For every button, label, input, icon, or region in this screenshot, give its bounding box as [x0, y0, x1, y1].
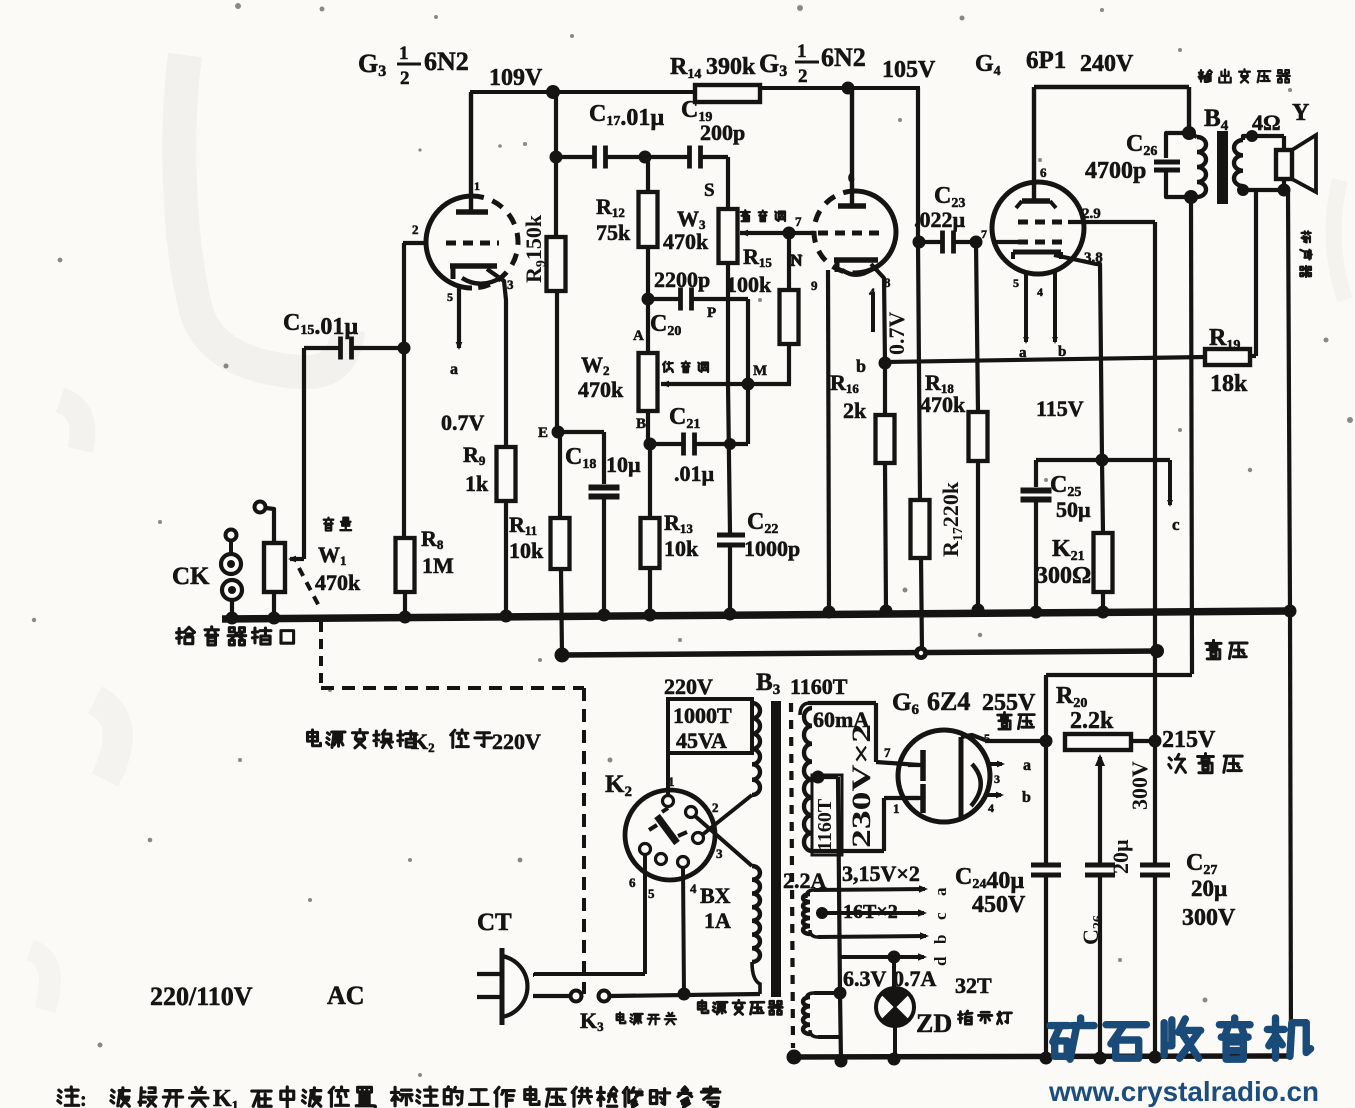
svg-text:32T: 32T — [955, 973, 992, 998]
svg-text:www.crystalradio.cn: www.crystalradio.cn — [1048, 1076, 1319, 1107]
capacitor C26 20u filter — [1078, 761, 1152, 1057]
svg-text:1: 1 — [399, 43, 409, 64]
label 0.7V rotated (G3b cathode) — [884, 312, 909, 356]
label G4 6P1 240V — [975, 47, 1134, 79]
capacitor C18 10u electrolytic — [558, 432, 641, 615]
svg-text:115V: 115V — [1036, 396, 1084, 421]
svg-text:2200p: 2200p — [654, 267, 710, 292]
wire cathode bias rail y=460 with c tap — [1036, 460, 1180, 534]
svg-text:16T×2: 16T×2 — [843, 901, 898, 923]
svg-text:109V: 109V — [489, 65, 543, 91]
svg-text:9: 9 — [811, 278, 818, 293]
svg-text:1160T: 1160T — [790, 674, 848, 699]
wire heater winding taps a c b with arrows — [814, 885, 929, 940]
resistor R13 10k — [641, 444, 700, 615]
svg-text:450V: 450V — [972, 892, 1026, 918]
svg-text:7: 7 — [795, 214, 802, 229]
capacitor C25 50u electrolytic — [1021, 460, 1092, 612]
tube G3a pin1 label — [474, 179, 480, 193]
tube G3b cathode bar — [834, 258, 878, 275]
switch K2 voltage changeover plug — [625, 790, 715, 880]
node junction b — [856, 356, 892, 376]
svg-text:470k: 470k — [663, 229, 709, 254]
svg-text:20µ: 20µ — [1191, 876, 1227, 901]
node rail start dot — [555, 648, 570, 663]
wire dashed link W1 wiper to K3 (switch linkage) — [299, 568, 584, 994]
capacitor C27 20u 300V filter — [1140, 741, 1236, 1057]
tube G4 heater pin5 lead to a — [1013, 271, 1029, 361]
svg-text:b: b — [1058, 344, 1066, 360]
label treble control (Chinese) — [741, 210, 785, 221]
svg-text:ZD: ZD — [916, 1009, 952, 1038]
label bass control (Chinese) — [663, 362, 708, 373]
wire 215V column (screen supply) down to R20 right — [1153, 222, 1157, 741]
svg-text:2: 2 — [712, 800, 719, 815]
svg-text:470k: 470k — [315, 570, 361, 595]
node junction secondary bottom / R19 vertical — [1237, 184, 1256, 356]
node rail R17 junction donut — [914, 646, 928, 660]
svg-text:1000p: 1000p — [744, 536, 800, 561]
svg-text:470k: 470k — [920, 392, 966, 417]
label CK — [172, 563, 210, 590]
svg-text:a: a — [450, 361, 458, 378]
label BX 1A fuse — [700, 883, 731, 933]
node junction dot speaker bottom — [1278, 184, 1291, 197]
node junction 255V — [1040, 735, 1053, 748]
svg-text:c: c — [931, 912, 950, 920]
label 220/110V AC — [150, 981, 365, 1011]
capacitor C17 .01u — [556, 101, 664, 169]
label G3 1/2 6N2 (second triode) — [759, 41, 866, 87]
tube G4 anode plate and lead to 240V rail — [1016, 87, 1056, 208]
tube G4 6P1 envelope — [992, 182, 1084, 274]
capacitor C15 .01u — [283, 310, 399, 360]
svg-text:d: d — [931, 956, 950, 966]
svg-text:20µ: 20µ — [1108, 839, 1133, 874]
label 105V — [882, 57, 936, 83]
svg-text:b: b — [1022, 789, 1031, 806]
svg-text:M: M — [753, 363, 767, 379]
resistor R11 10k — [509, 512, 570, 569]
svg-text:6N2: 6N2 — [821, 43, 866, 72]
svg-text::: : — [80, 1089, 87, 1108]
tube G3b anode plate bar and lead to 105V rail — [838, 88, 866, 206]
wire 255V up and over to B4 primary bottom — [1046, 675, 1192, 741]
capacitor C26 4700p across primary — [1085, 131, 1189, 197]
svg-text:200p: 200p — [700, 120, 745, 145]
svg-text:6: 6 — [1040, 165, 1047, 180]
wire d tap line with lamp junction — [840, 951, 927, 964]
svg-text:1: 1 — [474, 179, 480, 193]
inductor B4 secondary winding — [1234, 136, 1284, 190]
svg-text:3: 3 — [716, 846, 723, 861]
svg-text:18k: 18k — [1210, 371, 1248, 397]
wire W3 bottom column to C22 — [728, 263, 730, 533]
node dot shield to bottom rail — [787, 1050, 802, 1065]
svg-text:2k: 2k — [843, 398, 867, 423]
switch K2 shorting bar — [649, 808, 687, 843]
svg-text:10µ: 10µ — [606, 452, 641, 477]
resistor R9p 150k (plate load) — [547, 237, 566, 291]
label N near G3b grid — [791, 253, 803, 270]
svg-text:4Ω: 4Ω — [1252, 110, 1281, 135]
wire grid column from pin2 down to R8 — [402, 243, 406, 538]
svg-text:4700p: 4700p — [1085, 158, 1146, 184]
label 115V — [1036, 396, 1084, 421]
node junction dot B4 primary bottom — [1184, 190, 1198, 204]
svg-text:R17220k: R17220k — [938, 481, 966, 557]
label R17 220k rotated — [938, 481, 966, 557]
svg-text:C15.01µ: C15.01µ — [283, 310, 358, 340]
tube G4 screen grid dashed with lead to 215V column — [1018, 206, 1155, 222]
wire K2 pin4 down to mains return — [683, 868, 684, 994]
svg-text:1160T: 1160T — [814, 798, 836, 851]
node junction B — [636, 416, 657, 451]
node junction dot C17 takeoff — [550, 151, 563, 164]
svg-text:1: 1 — [797, 41, 807, 62]
wire K2 pin2 to lower winding (crossover) — [695, 816, 752, 866]
svg-text:P: P — [707, 305, 716, 321]
svg-text:3.8: 3.8 — [1084, 250, 1103, 266]
label 6.3V 0.7A 32T — [843, 966, 992, 998]
label pickup jack (Chinese) — [177, 627, 294, 645]
label 60mA — [813, 707, 869, 732]
svg-text:1000T: 1000T — [673, 703, 732, 728]
svg-text:S: S — [704, 180, 715, 201]
potentiometer W3 470k (treble) — [663, 157, 738, 263]
node junction dot B4 primary top — [1182, 126, 1196, 140]
node junction K21 top — [1096, 454, 1109, 467]
svg-text:N: N — [791, 253, 803, 270]
svg-text:5: 5 — [447, 290, 453, 304]
node bus junction dots — [226, 604, 1297, 625]
svg-text:6: 6 — [629, 875, 636, 890]
resistor R8 1M — [396, 526, 455, 617]
svg-text:.022µ: .022µ — [914, 207, 966, 232]
wire R9-150k column from 109V down to rail — [556, 92, 562, 656]
svg-text:2: 2 — [412, 222, 419, 237]
svg-text:220/110V: 220/110V — [150, 982, 253, 1011]
core B4 laminated core bar — [1217, 131, 1228, 204]
svg-text:6P1: 6P1 — [1026, 47, 1066, 74]
speaker Y — [1276, 135, 1316, 192]
svg-text:2: 2 — [798, 66, 808, 87]
node junction W3 wiper / R15 — [783, 227, 796, 240]
wire B3 shield dashed to chassis — [791, 703, 793, 1048]
note text bottom (Chinese) — [58, 1086, 720, 1108]
label 0.7V cathode voltage G3a — [441, 410, 485, 435]
svg-text:C17.01µ: C17.01µ — [589, 101, 664, 131]
label B3 1160T — [756, 669, 848, 699]
tube G3b pin8 cathode lead to node b — [871, 264, 891, 363]
wire b line to R19 — [885, 357, 1205, 362]
svg-text:R9150k: R9150k — [521, 214, 549, 283]
wire K2 pin6 down to CT plug line — [534, 855, 645, 974]
svg-text:300V: 300V — [1182, 905, 1236, 931]
svg-text:390k: 390k — [706, 54, 756, 80]
capacitor C24 40u 450V — [955, 741, 1061, 1057]
wire ground bus — [222, 611, 1290, 619]
svg-text:Y: Y — [1292, 100, 1309, 126]
svg-text:0.7V: 0.7V — [441, 410, 485, 435]
wire HV winding bottom to 6Z4 lower plate — [812, 798, 919, 851]
tube G3b grid dashed — [795, 214, 884, 233]
svg-text:255V: 255V — [982, 690, 1036, 716]
label K2 and pin numbers — [605, 771, 723, 901]
svg-text:a: a — [1019, 345, 1027, 361]
resistor R19 18k feedback — [1205, 190, 1256, 397]
tube G3a grid (dashed) and pin2 lead — [403, 222, 499, 243]
wire K2 pin1 to primary top — [666, 753, 670, 795]
wire HV rail 215V — [562, 651, 1158, 655]
svg-text:10k: 10k — [509, 538, 544, 563]
wire K2 pin3 to upper winding (crossover) — [702, 795, 752, 835]
wire B4 primary bottom down to 255V line — [1191, 197, 1192, 674]
tube G4 cathode lead 3.8 to bias network — [1054, 250, 1103, 460]
svg-text:3: 3 — [994, 772, 1000, 786]
node junction C15/grid — [398, 342, 411, 355]
tube G3a pin5 heater lead with label a — [447, 286, 462, 378]
svg-text:.01µ: .01µ — [674, 461, 715, 486]
label output transformer (Chinese) — [1199, 69, 1290, 82]
wire P vertical — [746, 299, 750, 444]
label K3 mains switch (Chinese) — [580, 1008, 676, 1034]
label G6 6Z4 255V HV — [892, 687, 1036, 745]
tube G3a cathode bar with hook — [450, 264, 502, 284]
svg-text:230V×2: 230V×2 — [847, 724, 876, 848]
svg-text:b: b — [931, 935, 950, 944]
lamp ZD indicator — [876, 957, 914, 1057]
tube G3a triode envelope (solid left arc + dashed right arc) — [426, 196, 518, 288]
svg-text:50µ: 50µ — [1056, 497, 1091, 522]
watermark crystalradio url — [1048, 1076, 1319, 1107]
potentiometer R20 wiper to C26 — [1095, 754, 1105, 863]
resistor R16 2k — [830, 363, 895, 611]
node junction A — [633, 293, 655, 345]
svg-text:B: B — [636, 416, 646, 432]
inductor B3 3.15Vx2 heater winding 16Tx2 — [803, 890, 818, 937]
wire anode rail right segment 105V — [758, 86, 920, 90]
svg-text:CK: CK — [172, 563, 210, 590]
svg-text:a: a — [931, 887, 950, 896]
svg-text:220V: 220V — [492, 729, 541, 754]
svg-text:470k: 470k — [578, 377, 624, 402]
resistor R14 390k — [670, 54, 760, 102]
transformer B3 primary rating box 1000T 45VA — [668, 699, 752, 753]
svg-text:a: a — [1023, 757, 1031, 774]
label 2.2A — [783, 868, 827, 893]
label 1160T rotated in box — [812, 775, 842, 855]
svg-text:8: 8 — [884, 275, 891, 290]
resistor R20 2.2k — [1056, 683, 1155, 750]
label 230Vx2 rotated — [847, 724, 876, 848]
capacitor C23 .022u — [914, 183, 976, 254]
switch K3 mains switch — [571, 991, 610, 1002]
svg-text:4: 4 — [988, 801, 994, 815]
label 220V above B3 primary — [664, 674, 713, 699]
svg-text:C2440µ: C2440µ — [955, 864, 1024, 894]
node junction dot G3b anode 105V — [842, 82, 855, 95]
label B4 — [1204, 105, 1229, 134]
svg-text:220V: 220V — [664, 674, 713, 699]
tube G3b pin4 heater stub — [869, 285, 875, 332]
inductor B3 primary lower winding BX section — [752, 866, 760, 994]
svg-text:CT: CT — [477, 909, 512, 936]
node HV winding center tap — [812, 771, 839, 784]
svg-text:6.3V: 6.3V — [843, 966, 887, 991]
node junction E — [538, 425, 565, 441]
wire CT to K3 and transformer — [533, 975, 570, 996]
label mains changeover note (Chinese) — [307, 729, 541, 755]
svg-text:4: 4 — [690, 881, 697, 896]
wire HV center tap column down to chassis rail — [838, 777, 841, 1062]
resistor K21 300ohm cathode bias — [1036, 460, 1113, 612]
svg-text:215V: 215V — [1162, 727, 1216, 753]
svg-text:2.9: 2.9 — [1082, 206, 1101, 222]
inductor B4 primary winding — [1189, 133, 1206, 197]
svg-text:6N2: 6N2 — [424, 47, 469, 76]
wire C15 left branch down to W1 wiper — [288, 348, 304, 562]
resistor R9 1k (cathode) — [463, 442, 516, 617]
svg-text:1A: 1A — [704, 908, 731, 933]
resistor R18 470k (grid leak) — [920, 242, 988, 610]
node junction C21/C22 column — [724, 438, 736, 450]
tube G6 cathode — [961, 735, 985, 818]
svg-text:300V: 300V — [1127, 761, 1152, 810]
capacitor C22 1000p — [717, 509, 800, 615]
svg-text:c: c — [1172, 515, 1180, 534]
tube G6 plate bars — [884, 745, 923, 816]
node junction dot 109V at R9 column — [546, 85, 560, 99]
svg-text:1k: 1k — [465, 471, 489, 496]
potentiometer W2 470k (bass) — [578, 299, 658, 444]
wire 240V top to B4 primary — [1034, 87, 1189, 133]
watermark crystalradio logo (Chinese) — [1050, 1018, 1311, 1059]
svg-text:1: 1 — [893, 801, 900, 816]
capacitor C19 200p — [645, 97, 745, 169]
svg-text:7: 7 — [981, 227, 987, 241]
svg-text:3: 3 — [507, 277, 514, 292]
wire 105V corner down to C23 and R17 — [918, 88, 922, 653]
svg-text:6Z4: 6Z4 — [927, 687, 970, 716]
connector CK pickup jacks — [221, 530, 242, 618]
tube G3a pin3 cathode lead down to R9 1k — [487, 269, 514, 447]
svg-text:E: E — [538, 425, 548, 441]
wire W2 wiper line to M and R15 bottom — [661, 381, 791, 388]
node junction dot C17/C19/R12 — [639, 151, 652, 164]
inductor B3 6.3V winding — [803, 993, 840, 1037]
svg-text:7: 7 — [884, 745, 891, 760]
svg-text:BX: BX — [700, 883, 731, 908]
svg-text:0.7V: 0.7V — [884, 312, 909, 356]
label ZD indicator lamp (Chinese) — [916, 1009, 1011, 1038]
label HV (Chinese) right — [1206, 640, 1247, 658]
label speaker (Chinese, rotated) — [1300, 231, 1311, 277]
svg-text:3,15V×2: 3,15V×2 — [842, 861, 920, 886]
tube G6 heater leads a b — [986, 757, 1031, 815]
node junction 215V right of R20 — [1149, 735, 1162, 748]
wire chassis bottom rail — [794, 1056, 1291, 1057]
svg-text:2: 2 — [400, 68, 410, 89]
node junction dot pin4 return — [678, 988, 691, 1001]
tube G3b pin9 lead to ground bus — [811, 270, 829, 612]
label 3.15Vx2 and 16Tx2 — [842, 861, 920, 923]
svg-text:240V: 240V — [1080, 51, 1134, 77]
label 109V — [489, 65, 543, 91]
tube G3a anode plate bar — [456, 92, 488, 212]
svg-text:100k: 100k — [726, 272, 772, 297]
svg-text:105V: 105V — [882, 57, 936, 83]
svg-text:10k: 10k — [664, 536, 699, 561]
svg-text:1M: 1M — [422, 553, 454, 578]
tube G4 cathode bar — [1013, 252, 1061, 259]
tube G4 control grid dashed with lead to C23 — [981, 227, 1068, 242]
node junction dot C23 right / G4 grid — [970, 236, 983, 249]
svg-text:75k: 75k — [596, 220, 631, 245]
node bottom rail junction dots — [835, 1051, 1162, 1068]
node junction dot C23 left — [913, 236, 926, 249]
node 109V anode rail segment (wire) — [470, 90, 697, 94]
svg-text:5: 5 — [648, 886, 655, 901]
label a c b d rotated — [931, 887, 950, 966]
capacitor C20 2200p — [648, 267, 748, 339]
tube G4 heater pin4 lead to b — [1037, 272, 1066, 360]
wire speaker return down right edge to bus and bottom rail — [1288, 190, 1291, 1056]
wire W3 wiper to G3b grid — [740, 230, 812, 237]
core B3 core bar — [771, 701, 781, 997]
node dot 6.3V top to common column — [834, 987, 847, 1000]
svg-text:4: 4 — [869, 285, 875, 299]
label 4ohm and Y — [1252, 100, 1309, 135]
svg-text:b: b — [856, 356, 866, 376]
svg-text:5: 5 — [1013, 276, 1019, 290]
node junction M on wiper line — [742, 363, 768, 391]
wire 6Z4 cathode output to 255V junction — [985, 739, 1046, 743]
switch K2 pins — [640, 796, 704, 868]
svg-text:AC: AC — [327, 981, 365, 1010]
tube G3b triode envelope (solid right arc + dashed left arc) — [814, 191, 896, 273]
node rail right dot at 215V column — [1150, 644, 1164, 658]
inductor B3 primary upper winding — [752, 699, 760, 795]
resistor R15 100k — [726, 233, 802, 384]
plug CT mains plug — [477, 909, 527, 1025]
svg-text:45VA: 45VA — [676, 728, 727, 753]
label R9 150k rotated — [521, 214, 549, 283]
potentiometer W1 470k (volume) — [255, 502, 286, 618]
label 215V and sub-HV (Chinese) — [1162, 727, 1242, 773]
label power transformer (Chinese) — [698, 1000, 782, 1014]
label G3 1/2 6N2 (first triode) — [358, 43, 469, 89]
node junction secondary top — [1246, 130, 1258, 142]
svg-text:2.2k: 2.2k — [1070, 708, 1114, 734]
wire K3 to primary bottom — [610, 994, 760, 996]
svg-text:300Ω: 300Ω — [1036, 563, 1091, 589]
svg-text:A: A — [633, 328, 644, 344]
svg-text:.: . — [708, 1086, 714, 1108]
svg-text:,: , — [372, 1088, 378, 1108]
resistor R17 220k (dropper) — [911, 500, 930, 558]
resistor R12 75k — [596, 157, 658, 299]
inductor B3 HV secondary winding 230Vx2 — [800, 703, 919, 851]
capacitor C21 .01u — [650, 404, 748, 486]
svg-text:6: 6 — [848, 170, 855, 185]
label W1 470k volume — [315, 518, 361, 595]
tube G6 6Z4 envelope — [898, 730, 990, 822]
svg-text:4: 4 — [1037, 285, 1043, 299]
